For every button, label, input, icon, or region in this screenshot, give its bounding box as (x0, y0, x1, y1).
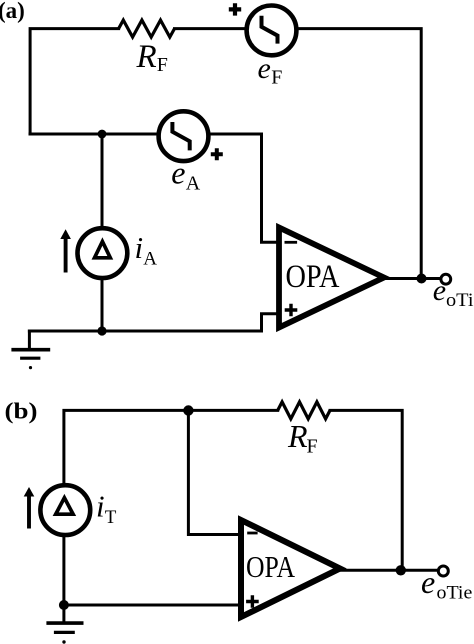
svg-text:T: T (105, 507, 117, 528)
svg-text:F: F (157, 54, 168, 76)
svg-text:F: F (271, 66, 282, 88)
svg-text:oTi: oTi (446, 290, 474, 311)
svg-text:(b): (b) (5, 398, 38, 423)
svg-text:A: A (143, 248, 157, 269)
svg-text:OPA: OPA (246, 550, 295, 584)
svg-text:(a): (a) (0, 0, 25, 23)
svg-text:e: e (421, 564, 435, 600)
svg-text:oTie: oTie (437, 583, 473, 604)
svg-text:i: i (96, 488, 105, 523)
svg-text:e: e (171, 154, 185, 190)
svg-text:e: e (433, 274, 446, 307)
svg-text:A: A (186, 172, 201, 194)
svg-text:R: R (287, 418, 308, 454)
svg-text:e: e (258, 52, 271, 85)
svg-text:F: F (307, 436, 318, 458)
svg-text:OPA: OPA (286, 259, 340, 295)
svg-text:R: R (136, 39, 157, 75)
svg-text:i: i (135, 230, 144, 265)
